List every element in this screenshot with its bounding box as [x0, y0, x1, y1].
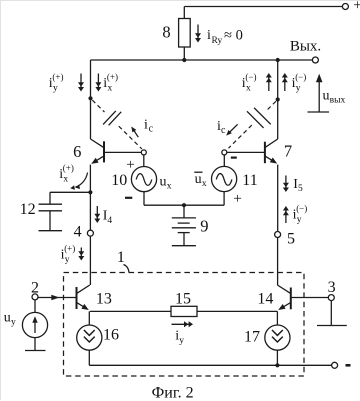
svg-text:y: y	[296, 83, 301, 93]
svg-text:+: +	[126, 157, 134, 173]
svg-text:y: y	[53, 83, 58, 93]
svg-text:11: 11	[242, 172, 257, 189]
svg-text:x: x	[202, 179, 207, 189]
svg-text:13: 13	[96, 291, 112, 308]
svg-text:5: 5	[287, 230, 295, 247]
svg-text:y: y	[297, 215, 302, 225]
svg-text:16: 16	[103, 326, 119, 343]
svg-text:5: 5	[298, 184, 303, 194]
svg-text:10: 10	[111, 172, 127, 189]
svg-text:3: 3	[328, 279, 336, 296]
svg-text:4: 4	[74, 223, 82, 240]
svg-text:u: u	[160, 174, 167, 189]
svg-text:(+): (+)	[63, 163, 74, 173]
svg-text:+: +	[353, 1, 360, 14]
svg-text:u: u	[4, 310, 11, 325]
svg-text:(−): (−)	[295, 72, 306, 82]
svg-text:Ry: Ry	[212, 36, 223, 46]
svg-text:x: x	[167, 181, 172, 191]
svg-text:i: i	[144, 117, 148, 132]
svg-text:≈ 0: ≈ 0	[224, 28, 243, 44]
svg-text:y: y	[11, 318, 16, 328]
svg-text:1: 1	[117, 249, 125, 266]
svg-text:(+): (+)	[107, 72, 118, 82]
svg-text:c: c	[221, 125, 226, 136]
svg-text:+: +	[233, 191, 241, 207]
svg-text:14: 14	[257, 291, 273, 308]
svg-text:8: 8	[162, 23, 170, 42]
svg-text:2: 2	[31, 280, 39, 297]
svg-text:6: 6	[73, 142, 81, 161]
svg-text:12: 12	[20, 201, 36, 218]
svg-text:вых: вых	[330, 96, 346, 106]
svg-text:(+): (+)	[64, 244, 75, 254]
svg-text:x: x	[108, 83, 113, 93]
svg-text:15: 15	[175, 291, 191, 308]
svg-text:y: y	[179, 336, 184, 346]
svg-text:(−): (−)	[296, 204, 307, 214]
svg-text:u: u	[323, 88, 330, 103]
svg-text:c: c	[149, 123, 154, 134]
svg-text:7: 7	[284, 142, 292, 161]
svg-text:(−): (−)	[245, 72, 256, 82]
svg-text:17: 17	[244, 328, 260, 345]
svg-text:u: u	[195, 172, 202, 187]
svg-text:9: 9	[200, 217, 208, 236]
svg-text:y: y	[65, 255, 70, 265]
svg-text:i: i	[207, 28, 211, 43]
svg-text:Вых.: Вых.	[290, 39, 321, 55]
svg-text:x: x	[246, 83, 251, 93]
svg-text:4: 4	[107, 216, 112, 226]
svg-text:Фиг. 2: Фиг. 2	[152, 385, 194, 401]
svg-text:x: x	[63, 174, 68, 184]
svg-text:(+): (+)	[52, 72, 63, 82]
